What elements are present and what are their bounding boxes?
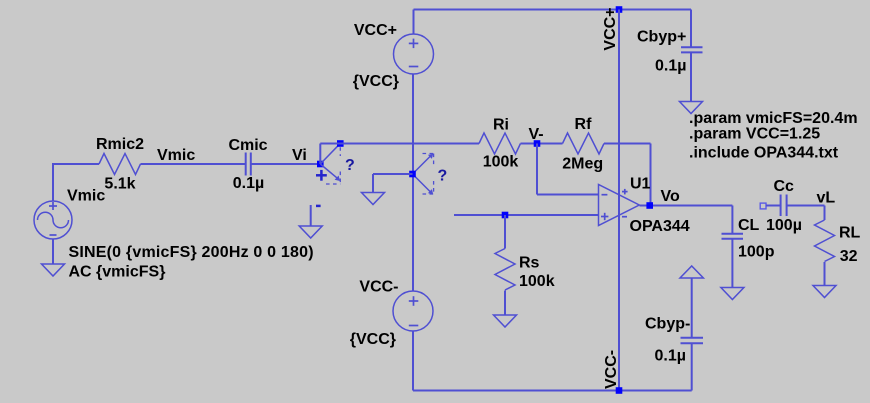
wire xyxy=(521,143,563,145)
svg-text:Rf: Rf xyxy=(575,116,593,133)
svg-text:Rmic2: Rmic2 xyxy=(96,136,144,153)
node Vi xyxy=(317,161,324,168)
ground (inverted) xyxy=(680,266,703,278)
svg-text:0.1µ: 0.1µ xyxy=(655,348,686,365)
wire top rail xyxy=(414,9,692,11)
svg-text:0.1µ: 0.1µ xyxy=(233,175,264,192)
wire xyxy=(141,163,246,165)
wire xyxy=(766,205,781,207)
pin label + xyxy=(316,170,327,181)
svg-text:U1: U1 xyxy=(630,176,651,193)
ground xyxy=(42,264,65,276)
resistor Ri xyxy=(479,133,521,154)
wire xyxy=(52,163,99,165)
svg-text:Vmic: Vmic xyxy=(157,147,195,164)
svg-text:.param VCC=1.25: .param VCC=1.25 xyxy=(689,126,820,143)
wire xyxy=(537,194,599,196)
ground xyxy=(494,315,517,327)
svg-text:100k: 100k xyxy=(519,273,555,290)
svg-text:32: 32 xyxy=(840,248,858,265)
node V- xyxy=(534,140,541,147)
svg-text:?: ? xyxy=(345,157,355,174)
node xyxy=(337,140,344,147)
wire xyxy=(372,174,374,193)
ground xyxy=(721,288,744,300)
resistor Rs xyxy=(495,249,515,291)
wire opamp power rail xyxy=(618,10,620,391)
svg-text:Rs: Rs xyxy=(519,255,540,272)
svg-text:AC {vmicFS}: AC {vmicFS} xyxy=(69,264,166,281)
voltage source VCC- xyxy=(393,291,433,331)
wire bottom rail xyxy=(413,390,692,392)
wire xyxy=(604,143,651,145)
wire xyxy=(824,206,826,221)
resistor Rf xyxy=(563,133,605,154)
ground xyxy=(680,102,703,114)
svg-text:100p: 100p xyxy=(738,244,775,261)
capacitor CL xyxy=(722,234,744,239)
wire xyxy=(413,10,415,35)
svg-text:VCC+: VCC+ xyxy=(354,22,397,39)
wire xyxy=(454,214,599,216)
unconnected pin marker xyxy=(760,203,766,209)
voltage source VCC+ xyxy=(394,34,434,74)
svg-text:Vo: Vo xyxy=(661,188,680,205)
resistor RL xyxy=(815,220,835,262)
node xyxy=(616,387,623,394)
wire xyxy=(731,239,733,288)
svg-text:{VCC}: {VCC} xyxy=(350,331,396,348)
wire xyxy=(310,205,312,226)
wire xyxy=(536,144,538,195)
svg-text:.param vmicFS=20.4m: .param vmicFS=20.4m xyxy=(689,110,858,127)
wire xyxy=(373,173,413,175)
ground xyxy=(362,193,385,205)
wire xyxy=(787,205,825,207)
svg-text:Cc: Cc xyxy=(774,178,795,195)
svg-text:SINE(0 {vmicFS} 200Hz 0 0 180): SINE(0 {vmicFS} 200Hz 0 0 180) xyxy=(69,244,314,261)
svg-text:100µ: 100µ xyxy=(766,217,802,234)
svg-text:VCC-: VCC- xyxy=(603,350,620,389)
wire xyxy=(640,205,733,207)
svg-text:5.1k: 5.1k xyxy=(104,176,135,193)
microphone X1 (missing symbol placeholder) xyxy=(320,144,340,185)
ground xyxy=(813,286,836,298)
svg-text:100k: 100k xyxy=(483,154,519,171)
svg-text:Ri: Ri xyxy=(493,117,509,134)
resistor Rmic2 xyxy=(99,154,141,175)
svg-text:vL: vL xyxy=(817,190,836,207)
svg-text:?: ? xyxy=(438,168,448,185)
wire xyxy=(650,144,652,206)
svg-text:0.1µ: 0.1µ xyxy=(655,58,686,75)
svg-text:Cmic: Cmic xyxy=(228,137,267,154)
capacitor Cbyp- xyxy=(681,278,704,391)
wire center rail xyxy=(412,74,414,291)
svg-text:Cbyp-: Cbyp- xyxy=(645,316,690,333)
wire xyxy=(504,215,506,249)
ground xyxy=(299,226,322,238)
capacitor Cc xyxy=(781,195,787,217)
svg-text:VCC-: VCC- xyxy=(359,279,398,296)
wire xyxy=(824,262,826,286)
svg-text:RL: RL xyxy=(839,225,861,242)
svg-text:Vi: Vi xyxy=(292,147,307,164)
svg-text:{VCC}: {VCC} xyxy=(353,73,399,90)
svg-text:VCC+: VCC+ xyxy=(602,7,619,50)
wire xyxy=(731,206,733,234)
svg-text:Cbyp+: Cbyp+ xyxy=(637,29,686,46)
node xyxy=(409,171,416,178)
wire xyxy=(52,239,54,264)
node Vo xyxy=(646,202,653,209)
wire xyxy=(320,143,479,145)
wire xyxy=(504,291,506,316)
pin label - xyxy=(316,205,321,208)
capacitor Cbyp+ xyxy=(681,10,703,102)
voltage source Vmic xyxy=(34,201,72,239)
svg-text:OPA344: OPA344 xyxy=(630,218,690,235)
svg-text:.include OPA344.txt: .include OPA344.txt xyxy=(689,145,839,162)
capacitor Cmic xyxy=(246,153,251,176)
svg-text:Vmic: Vmic xyxy=(67,188,105,205)
node xyxy=(616,6,623,13)
wire xyxy=(251,163,320,165)
wire xyxy=(412,331,414,391)
microphone X2 (missing symbol placeholder) xyxy=(413,154,435,195)
wire xyxy=(52,164,54,202)
node xyxy=(502,212,509,219)
svg-text:2Meg: 2Meg xyxy=(562,155,603,172)
op-amp U1 xyxy=(599,185,640,226)
svg-text:CL: CL xyxy=(738,217,760,234)
